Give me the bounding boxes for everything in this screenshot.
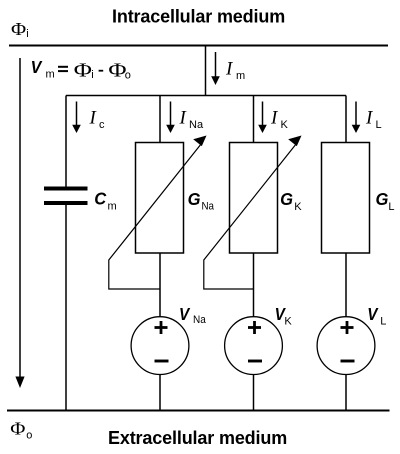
arrow: current Ic: [72, 102, 81, 134]
capacitor Cm plates: [44, 187, 88, 206]
svg-text:m: m: [108, 200, 117, 212]
wire: K branch upper: [253, 96, 255, 144]
label: VK: [275, 304, 293, 328]
svg-text:Φ: Φ: [74, 59, 92, 81]
wire: branch rail (second horizontal rail): [66, 95, 346, 97]
wire: L branch upper: [345, 96, 347, 144]
battery VNa: [131, 317, 189, 375]
wire: Na branch lower: [159, 375, 161, 410]
resistor GL (box): [322, 143, 370, 254]
arrow: current INa: [166, 102, 175, 134]
svg-text:c: c: [99, 119, 105, 131]
arrow: variable conductance GNa: [109, 136, 207, 290]
label: INa: [179, 108, 204, 132]
label: Cm: [94, 188, 116, 212]
svg-text:Intracellular medium: Intracellular medium: [112, 7, 285, 27]
svg-text:L: L: [376, 119, 382, 131]
wire: Im feed from top rail to branch rail: [205, 46, 207, 97]
svg-text:i: i: [91, 69, 93, 81]
svg-text:Φ: Φ: [11, 20, 26, 39]
svg-text:o: o: [125, 70, 131, 82]
wire: K branch middle: [253, 253, 255, 317]
arrow: variable conductance GK: [204, 136, 302, 290]
arrow: current IL: [352, 102, 361, 134]
svg-text:Na: Na: [189, 119, 204, 131]
svg-text:K: K: [281, 119, 289, 131]
wire: top rail (intracellular): [9, 45, 388, 47]
svg-text:Φ: Φ: [10, 420, 25, 439]
label: VNa: [179, 304, 207, 326]
wire: L branch middle: [345, 253, 347, 317]
arrow: current IK: [258, 102, 267, 134]
label: GK: [280, 189, 302, 213]
resistor GNa (box): [136, 143, 184, 254]
svg-text:V: V: [179, 304, 191, 324]
node Phi_o (extracellular potential): [10, 420, 32, 442]
svg-text:K: K: [294, 201, 302, 213]
wire: capacitor branch lower: [65, 205, 67, 410]
battery VL: [317, 317, 375, 375]
svg-text:G: G: [376, 189, 389, 210]
arrow: current Im: [211, 52, 220, 85]
svg-text:L: L: [388, 201, 394, 213]
wire: bottom rail (extracellular): [7, 410, 390, 412]
label: IK: [270, 108, 289, 132]
wire: Na branch middle (box to battery): [159, 253, 161, 317]
svg-text:V: V: [367, 304, 379, 324]
svg-text:G: G: [188, 189, 201, 210]
svg-text:m: m: [46, 69, 55, 81]
label: Ic: [89, 108, 106, 132]
svg-text:G: G: [280, 189, 293, 210]
svg-text:L: L: [380, 316, 386, 328]
svg-text:Na: Na: [193, 314, 207, 326]
svg-text:K: K: [284, 316, 292, 328]
svg-text:Extracellular medium: Extracellular medium: [108, 428, 287, 448]
svg-text:m: m: [236, 70, 245, 82]
label: Vm = Phi_i - Phi_o: [31, 57, 131, 81]
svg-text:Φ: Φ: [108, 59, 126, 81]
label: IL: [365, 108, 382, 132]
resistor GK (box): [230, 143, 278, 254]
label: GNa: [188, 189, 215, 213]
label: GL: [376, 189, 395, 213]
svg-text:i: i: [26, 28, 28, 40]
wire: capacitor branch upper: [65, 96, 67, 188]
battery VK: [225, 317, 283, 375]
svg-text:Na: Na: [202, 201, 215, 213]
wire: K branch lower: [253, 375, 255, 410]
label: Im: [225, 59, 245, 83]
wire: L branch lower: [345, 375, 347, 410]
svg-text:o: o: [26, 430, 32, 442]
arrow: Vm measurement arrow (left side): [15, 58, 24, 388]
label: VL: [367, 304, 386, 328]
svg-text:C: C: [94, 188, 106, 209]
node Phi_i (intracellular potential): [11, 20, 29, 40]
wire: Na branch upper: [159, 96, 161, 144]
svg-text:V: V: [31, 57, 43, 77]
